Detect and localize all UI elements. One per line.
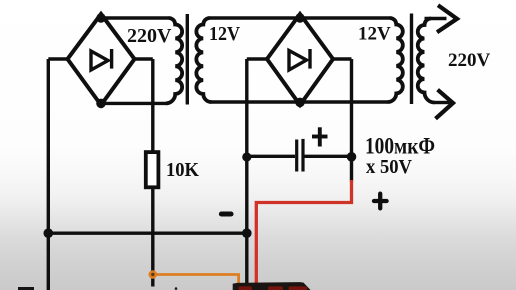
wire top rail left (bridge1 top to T1 primary) xyxy=(101,16,169,19)
node middle bus / bottom rail junction xyxy=(242,228,252,238)
output arrow top xyxy=(437,5,457,32)
wire orange tap from resistor bottom xyxy=(153,275,239,284)
wire middle vertical bus (minus bus) xyxy=(245,59,248,284)
wire resistor lower lead xyxy=(151,186,154,287)
wire output top lead xyxy=(425,17,447,20)
node capacitor right junction xyxy=(347,152,357,162)
svg-text:100мкФ: 100мкФ xyxy=(365,134,435,159)
node left bus / bottom rail junction xyxy=(44,228,54,238)
bridge rectifier B1 diamond xyxy=(68,14,135,105)
node B1 bottom xyxy=(96,99,106,109)
diode inside B2 xyxy=(289,51,307,71)
transformer T2 primary coil xyxy=(388,18,403,102)
svg-text:12V: 12V xyxy=(209,23,240,45)
wire bottom horizontal rail xyxy=(48,231,247,234)
stray dot xyxy=(175,287,178,290)
transformer T1 primary coil xyxy=(166,18,182,103)
node B2 top xyxy=(295,13,304,22)
capacitor C1 plates xyxy=(295,140,298,172)
wire output bottom lead xyxy=(434,101,450,104)
terminal block red segments xyxy=(239,286,253,290)
svg-text:12V: 12V xyxy=(358,23,391,44)
node B1 top xyxy=(96,13,105,22)
wire capacitor right lead xyxy=(305,155,352,158)
ground bar bottom left xyxy=(18,287,34,290)
output plus sign xyxy=(374,194,387,209)
bridge rectifier B2 diamond xyxy=(267,14,333,105)
wire bridge1 right vertex stub xyxy=(135,57,153,60)
wire red plus lead xyxy=(256,180,351,284)
capacitor polarity plus xyxy=(312,127,328,146)
wire top rail right (T1 secondary to T2 primary via bridge2 top) xyxy=(210,16,391,19)
transformer T2 core xyxy=(410,14,413,105)
wire bridge2 left vertex stub xyxy=(247,57,267,60)
node capacitor left junction xyxy=(242,152,251,161)
diode inside B1 xyxy=(91,51,108,70)
output minus sign xyxy=(221,211,231,216)
svg-text:10K: 10K xyxy=(166,159,199,181)
svg-text:220V: 220V xyxy=(448,50,491,71)
terminal block body (bottom photo fragment) xyxy=(233,282,311,290)
svg-text:220V: 220V xyxy=(127,25,172,47)
transformer T1 secondary coil xyxy=(196,18,211,102)
wire resistor upper lead xyxy=(151,59,154,153)
wire capacitor left lead xyxy=(247,155,295,158)
wire bridge2 right vertex stub xyxy=(333,57,352,60)
wire bottom rail right (T1 secondary to T2 primary via crossings) xyxy=(211,100,388,103)
wire bottom rail left (bridge1 bottom to T1 primary) xyxy=(101,102,167,105)
wire left vertical bus xyxy=(47,59,50,290)
node orange tap terminal xyxy=(149,270,158,279)
output arrow bottom xyxy=(436,90,454,119)
wire bridge1 left vertex stub xyxy=(48,57,67,60)
transformer T2 secondary coil xyxy=(418,19,435,103)
resistor R1 10K body xyxy=(146,152,159,187)
svg-text:x 50V: x 50V xyxy=(366,156,413,178)
node B2 bottom xyxy=(295,98,305,108)
wire plus vertical (black part) xyxy=(350,59,353,182)
transformer T1 core xyxy=(186,14,189,105)
